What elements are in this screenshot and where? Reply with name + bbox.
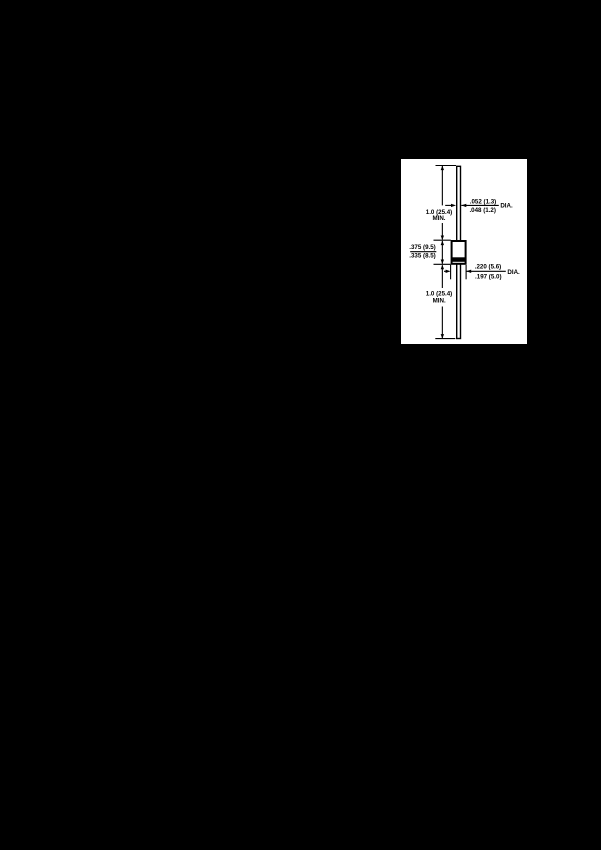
svg-text:MIN.: MIN. bbox=[433, 298, 446, 305]
svg-text:.197 (5.0): .197 (5.0) bbox=[475, 273, 501, 280]
extension line: body top bbox=[434, 239, 451, 241]
svg-text:.335 (8.5): .335 (8.5) bbox=[409, 253, 435, 260]
extension line: body bottom bbox=[434, 263, 451, 265]
svg-text:.220 (5.6): .220 (5.6) bbox=[475, 263, 501, 270]
label: .220 (5.6) / .197 (5.0) DIA. bbox=[475, 263, 520, 280]
dimension: lead diameter arrows bbox=[445, 204, 499, 207]
tick: top of upper lead bbox=[436, 165, 457, 167]
svg-text:.048 (1.2): .048 (1.2) bbox=[469, 207, 495, 214]
dimension line: lower lead length bbox=[441, 265, 444, 339]
label: 1.0 (25.4) MIN. lower bbox=[426, 291, 452, 305]
svg-text:.052 (1.3): .052 (1.3) bbox=[470, 198, 496, 205]
label: .052 (1.3) / .048 (1.2) DIA. bbox=[469, 198, 513, 214]
label: 1.0 (25.4) MIN. upper bbox=[426, 209, 452, 222]
dimension line: body length bbox=[441, 241, 444, 264]
svg-text:DIA.: DIA. bbox=[500, 203, 513, 210]
tick: bottom of lower lead bbox=[435, 338, 455, 340]
datasheet package-outline panel (white) bbox=[401, 159, 527, 344]
cathode band bbox=[452, 257, 466, 262]
svg-text:.375 (9.5): .375 (9.5) bbox=[409, 244, 435, 251]
dimension line: upper lead length bbox=[441, 166, 444, 240]
svg-text:DIA.: DIA. bbox=[507, 269, 520, 276]
extension line: body dia left bbox=[450, 265, 452, 279]
extension line: body dia right bbox=[465, 265, 467, 279]
lead (axial wire) bbox=[457, 166, 461, 338]
label: .375 (9.5) / .335 (8.5) bbox=[409, 244, 436, 260]
diode body DO-41 bbox=[452, 241, 466, 264]
svg-text:MIN.: MIN. bbox=[432, 215, 445, 222]
dimension: body diameter arrows bbox=[444, 270, 506, 273]
